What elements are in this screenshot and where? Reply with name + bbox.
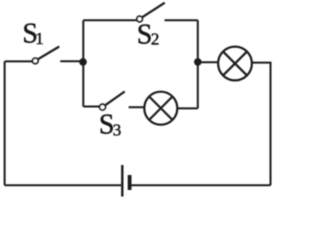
wire bottom left (to battery)	[5, 184, 122, 186]
wire lamp L1 to right branch	[177, 107, 198, 109]
wire top branch left (to S2)	[83, 19, 137, 21]
wire left vertical (down to battery)	[4, 61, 6, 185]
node B junction dot	[194, 58, 202, 66]
wire S1 to node A	[60, 60, 83, 62]
switch S2	[137, 3, 164, 22]
wire bottom right (battery to right corner)	[131, 184, 270, 186]
label S3	[99, 110, 121, 141]
wire right branch vertical (through node B)	[197, 20, 199, 108]
label S2	[137, 20, 160, 51]
wire S3 to lamp L1	[129, 106, 145, 108]
wire battery+ to S1 (middle-left horizontal)	[5, 60, 33, 62]
wire lamp L2 to right side	[252, 63, 271, 186]
node A junction dot	[79, 58, 87, 66]
label S1	[22, 19, 43, 50]
wire node B to lamp L2	[198, 61, 218, 63]
lamp L1 (lower branch)	[144, 92, 177, 125]
wire top branch right (S2 to top-right corner)	[165, 19, 198, 21]
switch S1	[33, 47, 59, 64]
wire left branch vertical (top branch to S3 branch through node A)	[82, 20, 84, 106]
switch S3	[100, 92, 124, 110]
wire S3 branch left	[83, 106, 99, 108]
lamp L2 (right)	[218, 47, 252, 81]
battery BT1	[122, 165, 131, 197]
